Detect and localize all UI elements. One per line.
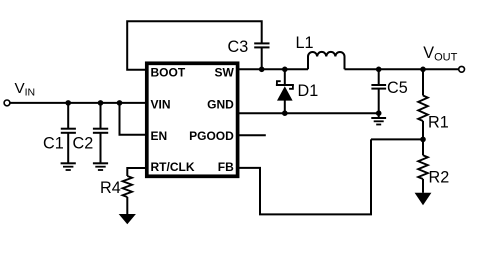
svg-text:GND: GND <box>207 97 234 111</box>
svg-text:R1: R1 <box>428 114 449 132</box>
svg-text:RT/CLK: RT/CLK <box>151 160 195 174</box>
wire SW rail <box>239 68 308 70</box>
capacitor C5 <box>371 69 386 113</box>
wire VIN rail <box>10 102 145 104</box>
node junction dots <box>65 67 425 143</box>
svg-text:VOUT: VOUT <box>423 44 457 63</box>
op-amp U1 <box>147 63 238 176</box>
svg-text:R2: R2 <box>429 168 450 186</box>
resistor R1 <box>418 69 428 139</box>
terminal VIN <box>4 100 10 106</box>
inductor L1 <box>308 52 345 69</box>
ground <box>61 163 76 170</box>
wire PGOOD stub <box>239 134 266 136</box>
svg-text:VIN: VIN <box>15 80 36 98</box>
svg-text:VIN: VIN <box>151 97 171 111</box>
ground <box>371 113 386 124</box>
svg-text:C2: C2 <box>73 135 94 153</box>
wire BOOT loop <box>127 21 262 70</box>
svg-text:C3: C3 <box>228 38 249 56</box>
svg-text:C1: C1 <box>43 135 64 153</box>
resistor R2 <box>418 139 428 192</box>
wire FB path <box>239 139 371 214</box>
svg-text:EN: EN <box>151 129 168 143</box>
capacitor C3 <box>254 43 269 69</box>
wire GND line <box>239 112 379 114</box>
terminal VOUT <box>459 66 465 72</box>
svg-text:R4: R4 <box>100 179 121 197</box>
svg-text:PGOOD: PGOOD <box>189 129 234 143</box>
svg-text:SW: SW <box>214 66 234 80</box>
svg-text:D1: D1 <box>298 82 319 100</box>
wire RT/CLK to R4 <box>127 168 145 176</box>
wire FB tap <box>371 138 423 140</box>
ground arrow <box>119 214 136 224</box>
wire EN to VIN <box>120 103 146 135</box>
wire VOUT rail <box>345 68 459 70</box>
svg-text:BOOT: BOOT <box>151 66 186 80</box>
svg-text:L1: L1 <box>296 34 314 52</box>
capacitor C1 <box>61 103 76 163</box>
ground <box>93 163 108 170</box>
svg-text:C5: C5 <box>387 79 408 97</box>
resistor R4 <box>123 176 132 214</box>
capacitor C2 <box>93 103 108 163</box>
diode D1 <box>276 69 294 113</box>
ground arrow <box>415 193 432 205</box>
svg-text:FB: FB <box>218 160 234 174</box>
